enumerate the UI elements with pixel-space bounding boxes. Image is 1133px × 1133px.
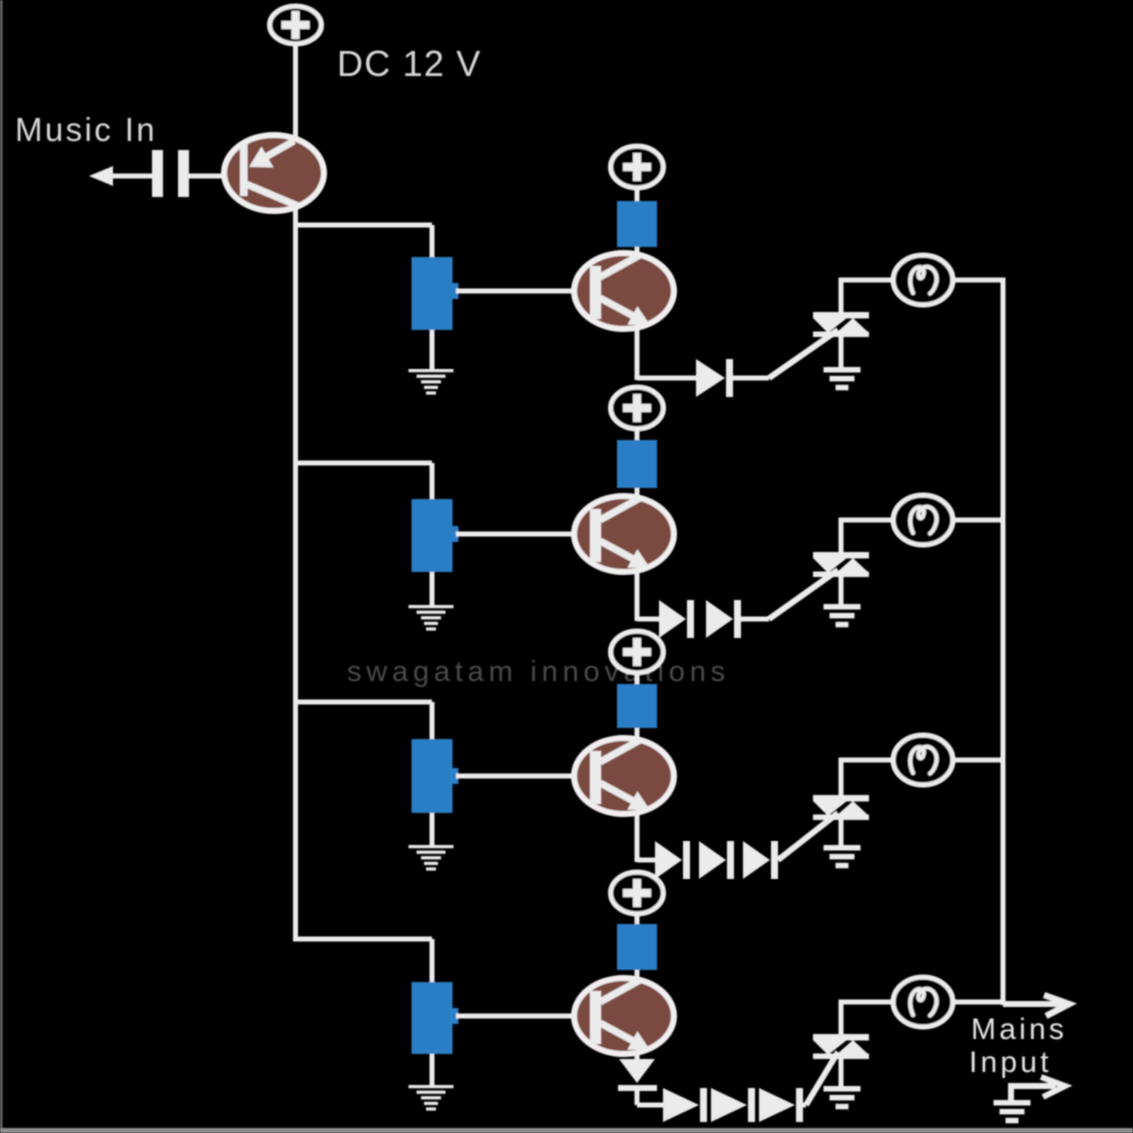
- svg-text:swagatam innovations: swagatam innovations: [347, 656, 730, 688]
- svg-text:Mains: Mains: [971, 1013, 1067, 1046]
- svg-text:Music In: Music In: [15, 111, 157, 148]
- svg-text:Input: Input: [969, 1046, 1052, 1079]
- svg-text:DC 12 V: DC 12 V: [337, 43, 481, 84]
